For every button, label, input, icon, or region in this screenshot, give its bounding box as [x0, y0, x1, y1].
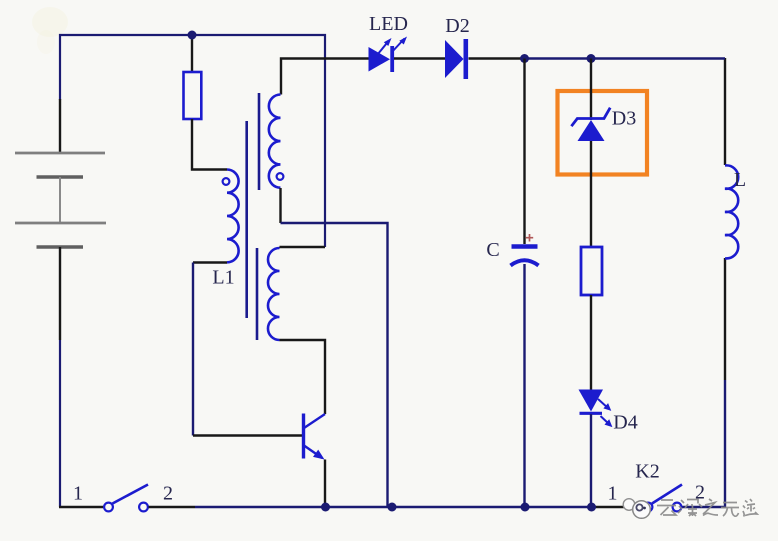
- wire C bottom to bottom rail: [523, 264, 525, 507]
- transformer primary winding L1 (left): [227, 169, 239, 262]
- svg-text:C: C: [486, 239, 499, 261]
- transformer label L1: [212, 267, 234, 289]
- wire D3 to R2: [590, 141, 592, 247]
- svg-text:D2: D2: [445, 15, 469, 37]
- transformer feedback winding (lower right): [268, 248, 280, 340]
- junction dot D4 branch at bottom rail: [587, 503, 596, 512]
- capacitor C: [511, 234, 539, 266]
- switch K2 pin label 2: [695, 482, 705, 504]
- wire left vertical below battery: [59, 247, 61, 507]
- svg-text:D4: D4: [613, 412, 637, 434]
- svg-text:D3: D3: [612, 108, 636, 130]
- junction dot top rail at C branch: [520, 54, 529, 63]
- wire bottom-left to switch contact 1: [59, 506, 104, 508]
- LED D4: [579, 390, 613, 428]
- junction dot top rail at D3 branch: [587, 54, 596, 63]
- orange highlight box around D3: [558, 91, 648, 175]
- inductor L value label: [734, 169, 746, 191]
- wire LED to D2: [394, 57, 445, 59]
- wire right rail above inductor: [724, 58, 726, 380]
- svg-text:LED: LED: [369, 13, 408, 35]
- wire bottom rail right of K2 to right rail: [681, 380, 725, 507]
- wire bottom rail from switch S1 to K2: [149, 506, 645, 508]
- switch S1: [104, 485, 148, 512]
- wire top rail from battery to lower winding branch: [60, 35, 325, 247]
- junction dot C at bottom rail: [521, 503, 530, 512]
- wire R2 to D4: [590, 295, 592, 390]
- zener D3 label: [612, 108, 636, 130]
- wire emitter to bottom rail: [324, 460, 326, 508]
- wire feedback winding bottom to collector: [280, 340, 326, 414]
- watermark text 云深之无迹: [657, 499, 757, 517]
- diode D2: [445, 39, 468, 79]
- transformer core line upper right: [258, 93, 261, 190]
- svg-text:L: L: [734, 169, 746, 191]
- wire D3 branch from top rail: [590, 59, 592, 121]
- polarity dot of winding L1: [223, 178, 230, 185]
- svg-text:K2: K2: [635, 461, 659, 483]
- LED D4 label: [613, 412, 637, 434]
- svg-text:2: 2: [163, 483, 173, 505]
- svg-text:1: 1: [608, 483, 618, 505]
- svg-text:1: 1: [73, 483, 83, 505]
- LED label: [369, 13, 408, 35]
- battery B1: [15, 153, 106, 247]
- inductor L: [725, 165, 738, 258]
- wire R1 bottom to primary winding top: [192, 119, 227, 170]
- resistor R2: [581, 247, 602, 295]
- transformer core line lower right: [256, 248, 259, 340]
- switch K2 label: [635, 461, 659, 483]
- wire C branch from top rail: [523, 59, 525, 245]
- wire top output rail (D2 cathode to right corner): [469, 57, 726, 59]
- switch K2: [644, 485, 682, 512]
- capacitor C label: [486, 239, 499, 261]
- wire D4 to bottom rail: [590, 414, 592, 507]
- junction dot top-left rail: [188, 31, 197, 40]
- LED (main lamp): [369, 37, 408, 73]
- transformer core line left: [245, 121, 248, 318]
- watermark logo: [623, 499, 650, 519]
- wire LED anode feed from secondary winding: [281, 59, 369, 95]
- resistor R1 top lead wire: [191, 35, 193, 72]
- transformer secondary winding (upper right): [269, 95, 281, 188]
- wire L1 bottom to transistor base: [193, 263, 302, 436]
- resistor R1: [184, 72, 202, 119]
- diode D2 label: [445, 15, 469, 37]
- transistor Q1: [304, 414, 326, 460]
- zener diode D3: [571, 108, 610, 141]
- junction dot emitter at bottom rail: [321, 503, 330, 512]
- switch K2 pin label 1: [608, 483, 618, 505]
- switch S1 label 1: [73, 483, 83, 505]
- polarity dot of secondary winding: [277, 173, 284, 180]
- switch S1 label 2: [163, 483, 173, 505]
- wire feedback winding top to top rail branch: [280, 246, 326, 248]
- svg-text:L1: L1: [212, 267, 234, 289]
- wire secondary winding bottom return to bottom rail: [281, 188, 388, 507]
- junction dot secondary return at bottom rail: [388, 503, 397, 512]
